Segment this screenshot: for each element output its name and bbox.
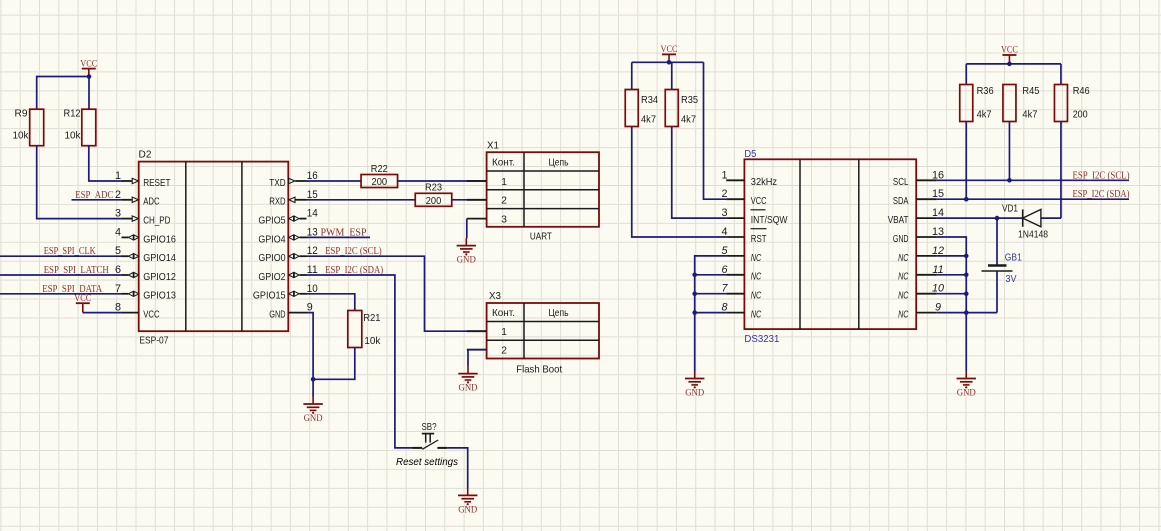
net label ESP_SPI_LATCH <box>44 265 109 276</box>
svg-text:SDA: SDA <box>893 195 909 207</box>
wire VCC to pin 8 <box>83 312 122 314</box>
ground GND (ESP pin 9) <box>303 397 322 425</box>
connector X3 table <box>487 303 599 359</box>
svg-text:GND: GND <box>269 309 286 321</box>
junction dot R36/SDA <box>964 197 969 202</box>
svg-text:4k7: 4k7 <box>641 114 656 126</box>
svg-text:UART: UART <box>530 231 552 243</box>
svg-text:GPIO12: GPIO12 <box>143 271 176 283</box>
pin 9 (NC) of D5 <box>898 302 941 321</box>
svg-text:NC: NC <box>751 252 762 264</box>
refdes label D5 <box>744 149 756 160</box>
pin 4 (RST) of D5 <box>721 226 767 245</box>
svg-text:4: 4 <box>115 226 121 238</box>
wire ESP_SPI_LATCH to pin 6 <box>0 274 122 276</box>
net label ESP_ADC <box>75 190 113 201</box>
value label Reset settings <box>396 456 459 468</box>
pin 3 (INT/SQW) of D5 <box>721 207 787 226</box>
pin 6 (GPIO12) of D2 <box>115 264 176 283</box>
svg-text:NC: NC <box>898 252 909 264</box>
refdes label GB1 <box>1005 252 1022 263</box>
wire RXD to R23 <box>307 199 416 201</box>
wire TXD to R22 <box>307 180 362 182</box>
svg-text:TXD: TXD <box>269 177 286 189</box>
svg-text:3: 3 <box>115 208 121 220</box>
pin 1 (RESET) of D2 <box>115 170 171 189</box>
wire PWM_ESP from pin 13 <box>307 236 371 238</box>
value label UART <box>530 231 552 243</box>
pin 7 (GPIO13) of D2 <box>115 283 176 302</box>
svg-text:NC: NC <box>898 290 909 302</box>
junction dot NC10 <box>964 291 969 296</box>
ground GND (D5 NC pins) <box>685 371 704 399</box>
svg-text:R45: R45 <box>1022 85 1039 97</box>
svg-text:GPIO0: GPIO0 <box>258 252 285 264</box>
wire R36 to SDA <box>965 122 967 200</box>
pin 10 (NC) of D5 <box>898 283 944 302</box>
svg-text:3V: 3V <box>1006 274 1017 285</box>
wire GPIO2 to button SB? <box>307 275 413 448</box>
resistor R36 <box>960 85 994 122</box>
pin 2 of X3 <box>467 345 507 357</box>
svg-text:4k7: 4k7 <box>977 109 992 121</box>
pin 14 (VBAT) of D5 <box>888 207 944 226</box>
power flag VCC (ESP pin 8) <box>74 294 91 313</box>
net label ESP_I2C (SDA) right <box>1073 189 1130 200</box>
svg-text:2: 2 <box>501 195 507 207</box>
junction dot VCC right rail <box>1007 62 1012 67</box>
refdes label VD1 <box>1002 202 1018 214</box>
pin 12 (NC) of D5 <box>898 245 944 264</box>
junction dot pin9/R21 <box>311 377 316 382</box>
svg-text:GB1: GB1 <box>1005 252 1022 263</box>
wire battery to GND row9 <box>966 312 997 314</box>
wire VCC to R12 <box>88 77 90 110</box>
svg-text:NC: NC <box>751 309 762 321</box>
net label ESP_I2C (SDA) <box>325 265 383 276</box>
svg-text:ESP-07: ESP-07 <box>139 335 168 347</box>
svg-text:10k: 10k <box>13 130 30 142</box>
ground GND (right) <box>957 371 976 399</box>
wire R34 to RST pin 4 <box>632 127 726 238</box>
pin 2 (ADC) of D2 <box>115 189 160 208</box>
junction dot VBAT/battery <box>995 216 1000 221</box>
svg-text:ADC: ADC <box>143 196 160 208</box>
value label ESP-07 <box>139 335 168 347</box>
svg-text:NC: NC <box>898 309 909 321</box>
ground GND (X1) <box>457 238 476 266</box>
wire R21 to GND junction <box>313 348 355 380</box>
svg-text:5: 5 <box>115 245 121 257</box>
pin 8 (VCC) of D2 <box>115 302 160 321</box>
svg-text:4k7: 4k7 <box>681 114 696 126</box>
value label 1N4148 <box>1018 229 1048 241</box>
svg-text:GPIO2: GPIO2 <box>258 271 285 283</box>
resistor R23 <box>415 182 452 207</box>
svg-text:Цепь: Цепь <box>549 156 569 168</box>
svg-text:1: 1 <box>115 170 121 182</box>
wire GPIO0 to X3 pin 1 <box>307 256 487 331</box>
ground GND (SB?) <box>458 488 477 516</box>
svg-text:GND: GND <box>893 233 909 245</box>
resistor R22 <box>361 163 398 188</box>
svg-text:NC: NC <box>751 290 762 302</box>
wire VCC rail (R34 R35 pin2) <box>632 62 704 89</box>
svg-text:1: 1 <box>721 169 727 181</box>
svg-text:SCL: SCL <box>893 176 909 188</box>
svg-text:3: 3 <box>501 214 507 226</box>
wire ESP_SPI_DATA to pin 7 <box>0 293 122 295</box>
svg-text:4: 4 <box>721 226 727 238</box>
refdes label SB? <box>422 421 437 433</box>
resistor R46 <box>1054 85 1089 122</box>
resistor R34 <box>625 90 658 127</box>
svg-text:R34: R34 <box>641 94 658 106</box>
wire R9 to CH_PD pin 3 <box>37 146 122 219</box>
junction dot VCC/R12 <box>87 74 92 79</box>
junction dot NC8 <box>692 310 697 315</box>
svg-text:10k: 10k <box>65 130 82 142</box>
svg-text:NC: NC <box>751 271 762 283</box>
junction dot VCC mid rail <box>667 60 672 65</box>
svg-text:R21: R21 <box>363 312 380 324</box>
value label 3V <box>1006 274 1017 285</box>
net label PWM_ESP <box>321 227 367 238</box>
wire ESP_ADC to pin 2 <box>72 199 122 201</box>
svg-text:200: 200 <box>372 177 388 188</box>
svg-text:GND: GND <box>459 384 478 394</box>
svg-text:2: 2 <box>501 345 507 357</box>
svg-text:6: 6 <box>115 264 121 276</box>
svg-text:GPIO16: GPIO16 <box>143 233 176 245</box>
wire GND pin 9 down <box>307 313 314 397</box>
svg-text:GPIO14: GPIO14 <box>143 252 176 264</box>
svg-text:ESP_I2C (SDA): ESP_I2C (SDA) <box>1073 189 1130 200</box>
svg-text:VBAT: VBAT <box>888 214 909 226</box>
pin 15 (SDA) of D5 <box>893 188 944 207</box>
svg-text:R22: R22 <box>371 163 388 175</box>
refdes label X3 <box>489 290 501 302</box>
power flag VCC (top-left) <box>80 59 97 76</box>
svg-text:GPIO5: GPIO5 <box>258 215 285 227</box>
svg-text:GND: GND <box>304 414 323 424</box>
svg-text:R23: R23 <box>425 182 442 194</box>
resistor R12 <box>64 108 96 146</box>
svg-text:Flash Boot: Flash Boot <box>516 363 562 375</box>
wire GND pin13 down to GND <box>937 237 966 371</box>
svg-text:1: 1 <box>501 326 507 338</box>
svg-text:INT/SQW: INT/SQW <box>751 214 788 226</box>
pin 10 (GPIO15) of D2 <box>253 283 318 302</box>
junction dot NC7 <box>692 291 697 296</box>
pin 3 (CH_PD) of D2 <box>115 208 171 227</box>
wire VCC rail to R9 <box>37 77 89 110</box>
svg-text:X1: X1 <box>487 139 499 151</box>
pin 1 of X3 <box>467 326 507 338</box>
wire R35 to INT/SQW pin 3 <box>672 127 726 219</box>
resistor R45 <box>1003 85 1040 122</box>
svg-text:Reset settings: Reset settings <box>396 456 459 468</box>
button SB? symbol <box>413 434 448 450</box>
pin 12 (GPIO0) of D2 <box>258 245 317 264</box>
svg-text:Цепь: Цепь <box>549 307 569 319</box>
value label DS3231 <box>744 334 779 345</box>
svg-text:R35: R35 <box>681 94 698 106</box>
pin 13 (GPIO4) of D2 <box>258 226 317 245</box>
svg-text:200: 200 <box>426 196 442 207</box>
wire X1 pin3 to GND <box>466 219 468 239</box>
svg-text:ESP_I2C (SCL): ESP_I2C (SCL) <box>1073 170 1130 181</box>
svg-text:Конт.: Конт. <box>492 156 515 168</box>
junction dot NC12 <box>964 254 969 259</box>
ground GND (X3) <box>458 366 477 394</box>
svg-text:GPIO4: GPIO4 <box>258 233 285 245</box>
pin 5 (GPIO14) of D2 <box>115 245 176 264</box>
svg-text:R9: R9 <box>15 108 28 120</box>
wire X3 pin2 to GND <box>468 350 487 367</box>
resistor R9 <box>13 108 44 146</box>
junction dot NC11 <box>964 273 969 278</box>
pin 11 (NC) of D5 <box>898 264 944 283</box>
pin 8 (NC) of D5 <box>721 302 761 321</box>
pin 16 (SCL) of D5 <box>893 169 944 188</box>
wire R22 to X1 pin 1 <box>398 180 487 182</box>
svg-text:R12: R12 <box>64 108 81 120</box>
connector X1 table <box>487 152 599 227</box>
wire SCL row to right edge <box>937 179 1129 181</box>
IC D5 DS3231 body <box>744 159 916 329</box>
pin 11 (GPIO2) of D2 <box>258 264 317 283</box>
pin 16 (TXD) of D2 <box>269 170 318 189</box>
svg-text:GND: GND <box>457 256 476 266</box>
svg-text:R46: R46 <box>1073 85 1090 97</box>
svg-text:8: 8 <box>115 302 121 314</box>
svg-text:X3: X3 <box>489 290 501 302</box>
battery GB1 <box>982 218 1013 313</box>
net label ESP_SPI_DATA <box>42 284 103 295</box>
svg-text:GND: GND <box>957 389 976 399</box>
wire VBAT to diode <box>937 217 1023 219</box>
junction dot R45/SCL <box>1007 178 1012 183</box>
pin 2 of X1 <box>467 195 507 207</box>
svg-text:GPIO15: GPIO15 <box>253 290 286 302</box>
wire R45 to SCL <box>1008 122 1010 181</box>
svg-text:VCC: VCC <box>751 195 767 207</box>
svg-text:CH_PD: CH_PD <box>143 215 171 227</box>
pin 3 of X1 <box>467 214 507 226</box>
svg-text:4k7: 4k7 <box>1022 109 1037 121</box>
pin 6 (NC) of D5 <box>721 264 761 283</box>
wire R23 to X1 pin 2 <box>451 199 486 201</box>
pin 9 (GND) of D2 <box>269 302 313 321</box>
resistor R35 <box>665 90 698 127</box>
svg-text:1: 1 <box>501 176 507 188</box>
svg-text:2: 2 <box>721 188 727 200</box>
svg-text:7: 7 <box>115 283 121 295</box>
svg-text:14: 14 <box>307 208 318 220</box>
svg-text:2: 2 <box>115 189 121 201</box>
wire diode to R46 <box>1041 122 1061 219</box>
svg-text:32kHz: 32kHz <box>751 176 777 188</box>
pin 4 (GPIO16) of D2 <box>115 226 176 245</box>
net label ESP_I2C (SCL) <box>325 246 382 257</box>
svg-text:GND: GND <box>685 389 704 399</box>
svg-text:GPIO13: GPIO13 <box>143 290 176 302</box>
wire SB? to GND <box>447 448 467 489</box>
svg-text:R36: R36 <box>977 85 994 97</box>
wire VCC to pin 2 <box>704 62 727 199</box>
wire SDA row to right edge <box>937 198 1129 200</box>
svg-text:D5: D5 <box>744 149 756 160</box>
resistor R21 <box>348 311 381 348</box>
power flag VCC (right) <box>1001 46 1018 64</box>
IC U D2 ESP-07 body <box>139 162 289 332</box>
svg-text:RXD: RXD <box>269 196 286 208</box>
power flag VCC (middle) <box>661 45 678 62</box>
pin 14 (GPIO5) of D2 <box>258 208 317 227</box>
wire ESP_SPI_CLK to pin 5 <box>0 255 122 257</box>
wire R12 to RESET pin 1 <box>89 146 122 181</box>
svg-text:NC: NC <box>898 271 909 283</box>
svg-text:SB?: SB? <box>422 421 437 433</box>
refdes label X1 <box>487 139 499 151</box>
pin 5 (NC) of D5 <box>721 245 761 264</box>
svg-text:Конт.: Конт. <box>492 307 515 319</box>
svg-text:10k: 10k <box>364 335 381 347</box>
pin 7 (NC) of D5 <box>721 283 761 302</box>
svg-text:VCC: VCC <box>143 309 160 321</box>
junction dot NC6 <box>692 273 697 278</box>
pin 13 (GND) of D5 <box>893 226 944 245</box>
svg-text:D2: D2 <box>139 149 152 161</box>
svg-text:VD1: VD1 <box>1002 202 1018 214</box>
wire NC pins 5-8 to GND <box>695 256 727 371</box>
net label ESP_SPI_CLK <box>44 246 97 257</box>
pin 1 of X1 <box>467 176 507 188</box>
svg-text:1N4148: 1N4148 <box>1018 229 1048 241</box>
net label ESP_I2C (SCL) right <box>1073 170 1130 181</box>
pin 1 (32kHz) of D5 <box>721 169 777 188</box>
wire GPIO15 to R21 <box>307 294 355 311</box>
svg-text:RESET: RESET <box>143 177 171 189</box>
value label Flash Boot <box>516 363 562 375</box>
wire VCC rail right <box>966 64 1061 85</box>
svg-text:RST: RST <box>751 233 767 245</box>
svg-text:200: 200 <box>1073 109 1088 121</box>
refdes label D2 <box>139 149 152 161</box>
svg-text:DS3231: DS3231 <box>744 334 779 345</box>
diode VD1 <box>1023 209 1041 226</box>
junction dot NC9/battery <box>964 310 969 315</box>
svg-text:3: 3 <box>721 207 727 219</box>
svg-text:GND: GND <box>458 505 477 515</box>
pin 15 (RXD) of D2 <box>269 189 318 208</box>
pin 2 (VCC) of D5 <box>721 188 766 207</box>
